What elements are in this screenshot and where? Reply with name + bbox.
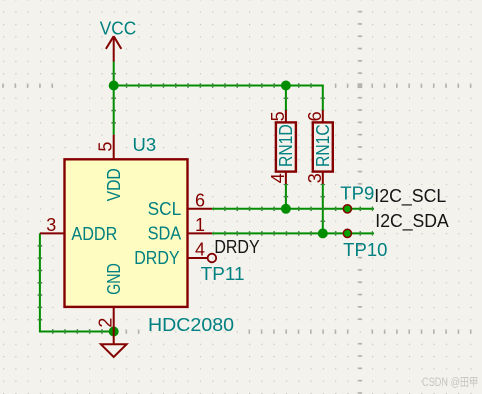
svg-text:3: 3 — [46, 215, 56, 235]
pin 5 stub (VDD top) — [113, 135, 115, 160]
svg-text:5: 5 — [95, 142, 115, 152]
RN1C pin 3 stub — [322, 172, 324, 184]
svg-text:1: 1 — [195, 215, 205, 235]
wire VCC stem vertical — [113, 62, 115, 135]
wire RN1C top drop — [322, 85, 324, 111]
ground — [101, 332, 127, 358]
svg-text:4: 4 — [268, 173, 288, 183]
svg-text:2: 2 — [95, 318, 115, 328]
svg-text:CSDN @田甲: CSDN @田甲 — [422, 377, 478, 389]
pin 6 stub (SCL right) — [188, 208, 213, 210]
wire ADDR to GND: left drop and bottom run — [40, 233, 114, 331]
wire top horizontal — [113, 85, 323, 87]
wire RN1C bottom to SDA — [322, 183, 324, 233]
resistor RN1C body — [313, 122, 333, 171]
svg-text:TP9: TP9 — [340, 184, 374, 204]
svg-text:TP10: TP10 — [343, 240, 387, 260]
pin 3 stub (ADDR left) — [40, 232, 65, 234]
svg-text:VDD: VDD — [103, 168, 124, 201]
RN1C pin 6 stub — [322, 110, 324, 122]
svg-text:SDA: SDA — [148, 222, 182, 243]
svg-text:5: 5 — [268, 111, 288, 121]
svg-text:U3: U3 — [133, 134, 157, 155]
svg-text:I2C_SCL: I2C_SCL — [374, 186, 446, 207]
junction RN1C bottom / SDA — [318, 228, 328, 238]
svg-text:4: 4 — [195, 240, 205, 260]
junction RN1D top tap — [281, 81, 291, 91]
wire RN1D top drop — [285, 86, 287, 111]
svg-text:SCL: SCL — [148, 198, 182, 219]
RN1D pin 5 stub — [285, 110, 287, 122]
svg-text:DRDY: DRDY — [134, 247, 179, 268]
svg-text:6: 6 — [195, 190, 205, 210]
resistor RN1D body — [276, 122, 296, 171]
svg-text:RN1D: RN1D — [275, 124, 296, 167]
pin 1 stub (SDA right) — [188, 232, 213, 234]
RN1D pin 4 stub — [285, 172, 287, 184]
svg-text:ADDR: ADDR — [71, 223, 117, 244]
svg-text:HDC2080: HDC2080 — [148, 315, 234, 335]
svg-text:GND: GND — [103, 263, 124, 295]
IC U3 body — [65, 159, 188, 307]
svg-text:RN1C: RN1C — [312, 124, 333, 167]
wire SDA horizontal — [212, 232, 374, 234]
junction GND node — [109, 327, 119, 337]
pin 2 stub (GND bottom) — [113, 307, 115, 332]
svg-text:6: 6 — [305, 111, 325, 121]
junction RN1D bottom / SCL — [281, 204, 291, 214]
pin 4 stub (DRDY right) — [188, 257, 208, 259]
wire RN1D bottom to SCL — [285, 183, 287, 208]
test point TP10 pad — [343, 229, 351, 237]
svg-text:VCC: VCC — [100, 19, 137, 39]
svg-text:DRDY: DRDY — [214, 237, 259, 257]
test point TP11 pad — [208, 254, 217, 263]
power symbol VCC — [106, 36, 121, 61]
junction VCC node — [109, 81, 119, 91]
svg-text:TP11: TP11 — [201, 264, 245, 284]
test point TP9 pad — [343, 205, 351, 213]
svg-text:3: 3 — [305, 173, 325, 183]
wire SCL horizontal — [212, 208, 374, 210]
svg-text:I2C_SDA: I2C_SDA — [375, 211, 449, 232]
